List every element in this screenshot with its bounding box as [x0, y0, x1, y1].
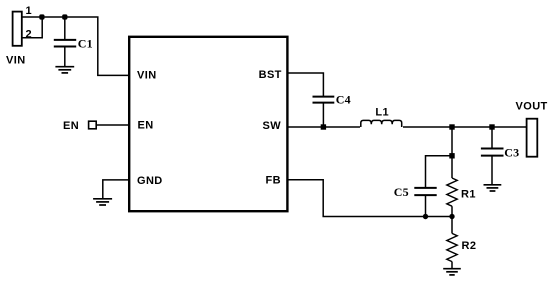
svg-text:FB: FB [266, 174, 281, 186]
svg-text:C5: C5 [394, 185, 409, 199]
wire C5 branch [426, 156, 453, 188]
port symbol EN [89, 121, 97, 129]
svg-text:L1: L1 [375, 107, 389, 119]
svg-text:C4: C4 [336, 92, 351, 106]
ground (C3) [484, 185, 502, 191]
wire SW node down to R1 [451, 127, 453, 178]
node junction R1 branch [449, 124, 454, 129]
resistor R2 [451, 217, 453, 234]
capacitor C1 [54, 17, 76, 66]
wire pin2 [23, 17, 43, 38]
svg-text:VIN: VIN [137, 69, 157, 81]
svg-text:EN: EN [63, 120, 79, 132]
node junction C3 branch [489, 124, 494, 129]
svg-text:SW: SW [262, 120, 281, 132]
wire FB to divider [287, 180, 452, 217]
resistor R1 [447, 178, 457, 206]
node junction C1 tap [62, 14, 67, 19]
capacitor C3 [481, 127, 504, 184]
svg-text:GND: GND [137, 175, 163, 187]
connector J1 (VIN header) [13, 12, 22, 46]
node junction R1/R2 [449, 214, 454, 219]
ground (IC GND) [93, 199, 112, 205]
wire EN to IC [96, 124, 129, 126]
capacitor C4 [313, 97, 335, 127]
node junction C5 tap [449, 153, 454, 158]
svg-text:1: 1 [26, 5, 33, 17]
svg-text:C1: C1 [78, 37, 93, 51]
capacitor C5 [414, 188, 436, 217]
svg-text:VOUT: VOUT [516, 100, 548, 112]
ground (R2) [443, 269, 461, 275]
ground (C1) [55, 67, 74, 73]
op-amp U1 (regulator IC body) [129, 37, 287, 211]
svg-text:C3: C3 [504, 145, 519, 159]
inductor L1 [361, 120, 402, 127]
svg-text:R2: R2 [462, 240, 477, 252]
svg-text:BST: BST [259, 69, 282, 81]
wire BST to C4 [287, 73, 323, 96]
wire SW to inductor [287, 126, 360, 128]
node junction C5 bottom [423, 214, 428, 219]
wire inductor to VOUT connector [403, 126, 526, 128]
connector J2 (VOUT) [527, 119, 538, 157]
svg-text:R1: R1 [461, 188, 476, 200]
node junction BST cap on SW [321, 124, 326, 129]
svg-text:VIN: VIN [6, 55, 26, 67]
wire pin1 to IC VIN [23, 17, 130, 75]
node junction pin1/pin2 [39, 14, 44, 19]
svg-text:2: 2 [26, 29, 33, 41]
svg-text:EN: EN [138, 120, 154, 132]
wire GND pin to ground [103, 180, 129, 198]
